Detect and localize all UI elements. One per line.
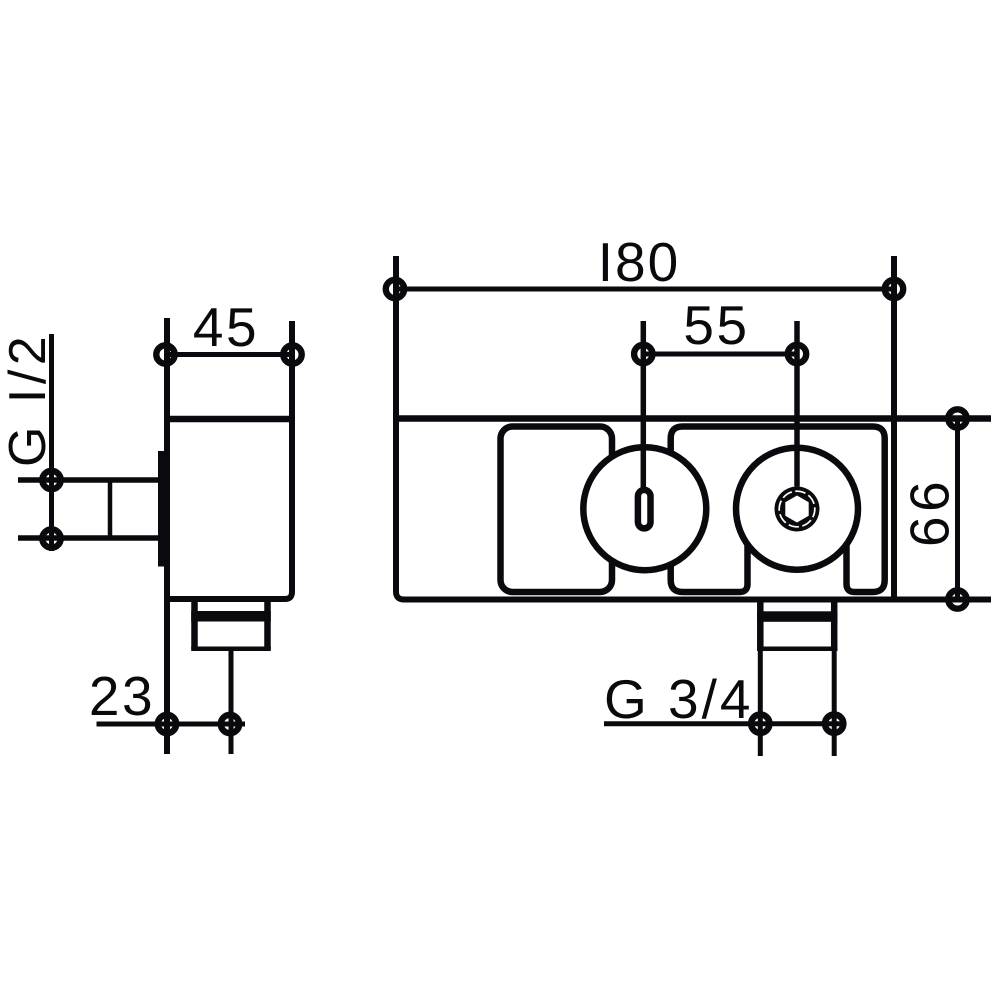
component: screw boss on right knob (775, 487, 820, 532)
component: handle slot on left knob (638, 490, 651, 529)
node: 45 dim ring right (283, 345, 301, 363)
wire: 66 dimension line (955, 419, 960, 600)
component: left knob circle (583, 447, 706, 570)
wire: G1/2 dimension line vertical (49, 334, 54, 551)
wire: G1/2 pipe bottom edge / extension line (18, 535, 164, 541)
node: G1/2 dimension ring top (42, 471, 60, 489)
wire: body left edge + 45/23 extension line (164, 318, 170, 754)
component: outlet nipple left view (191, 600, 198, 649)
node: 45 dim ring left (156, 345, 174, 363)
node: 23 dim ring left (158, 715, 176, 733)
svg-text:45: 45 (193, 296, 259, 358)
component: wall flange (solid) (158, 451, 168, 567)
component: hex socket (785, 496, 808, 523)
wire: body bottom edge + 66 extension (404, 597, 991, 603)
node: G1/2 dimension ring bottom (42, 529, 60, 547)
component: right escutcheon plate with notch (671, 427, 885, 593)
node: 180 dim ring left (386, 280, 404, 298)
wire: outlet centre line down (229, 649, 234, 754)
wire: 23 dimension line (97, 722, 246, 727)
svg-text:I80: I80 (598, 231, 680, 293)
wire: body top edge (167, 416, 292, 423)
wire: G3/4 extension left (758, 649, 763, 756)
wire: 180 dimension line (395, 287, 894, 292)
wire: left centre line (641, 321, 647, 490)
svg-text:G I/2: G I/2 (0, 332, 57, 467)
node: 66 dim ring bottom (948, 590, 966, 608)
wire: 45 dim right extension / body right edge (167, 321, 292, 599)
svg-text:23: 23 (89, 665, 155, 727)
wire: body top edge + 66 extension (396, 415, 991, 422)
component: left escutcheon plate (501, 427, 613, 593)
wire: 55 dimension line (643, 352, 797, 357)
wire: G3/4 extension right (832, 649, 837, 756)
node: 55 dim ring left (634, 345, 652, 363)
svg-text:66: 66 (899, 477, 961, 547)
node: 55 dim ring right (788, 345, 806, 363)
wire: pipe section divider (108, 480, 113, 538)
wire: right centre line (794, 321, 800, 487)
component: screw thread dashed ring (779, 491, 815, 527)
node: G3/4 dim ring left (751, 715, 769, 733)
wire: G3/4 dimension line (604, 721, 845, 726)
node: 180 dim ring right (885, 280, 903, 298)
component: outlet nipple front view (757, 600, 764, 649)
wire: body left edge + 180 extension (396, 256, 404, 600)
node: G3/4 dim ring right (825, 715, 843, 733)
node: 66 dim ring top (948, 409, 966, 427)
component: right knob circle (736, 448, 858, 570)
svg-text:55: 55 (683, 294, 749, 356)
node: 23 dim ring right (221, 715, 239, 733)
svg-text:G 3/4: G 3/4 (604, 668, 754, 730)
wire: body right edge + 180 extension (891, 256, 897, 600)
wire: G1/2 pipe top edge / extension line (18, 477, 164, 483)
wire: 45 dimension line (166, 352, 293, 357)
